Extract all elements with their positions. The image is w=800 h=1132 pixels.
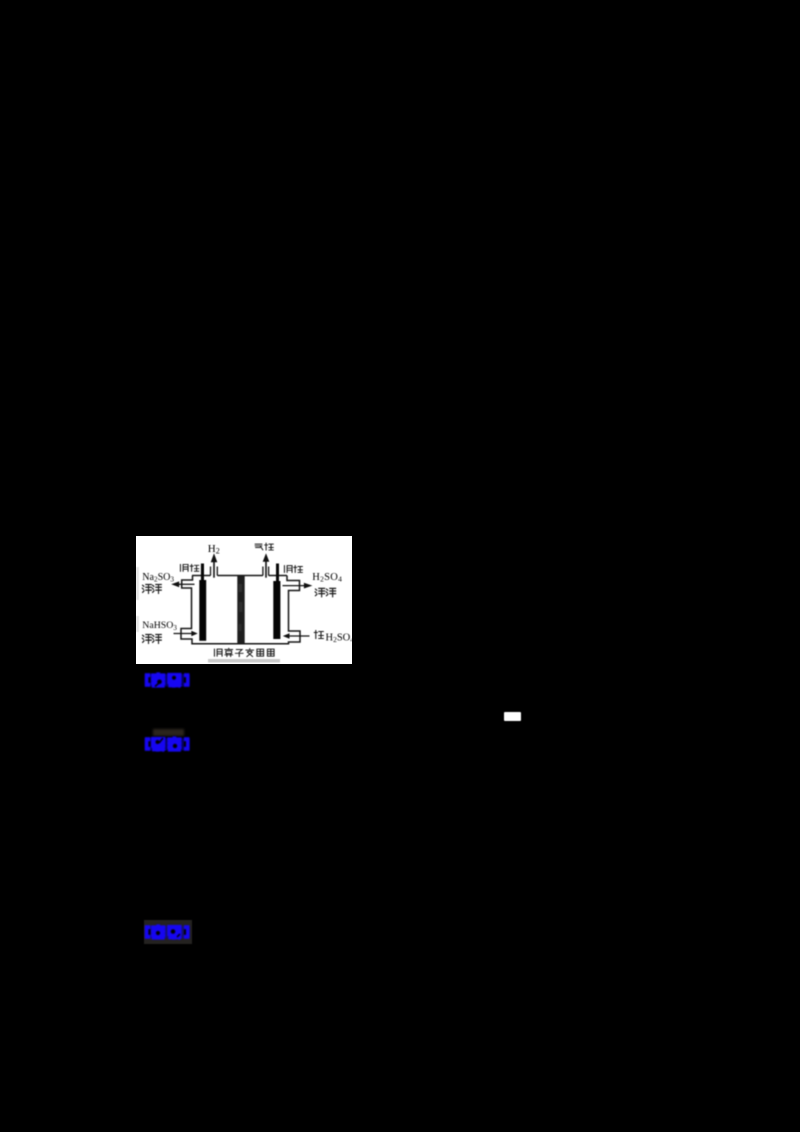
label 阴极 (cathode) [180,564,198,571]
blue label 3: 【解答】 [143,923,193,947]
diagram panel: electrolysis cell figure [136,536,352,664]
label 溶液 (solution) upper-left [142,584,161,593]
label 溶液 lower-left [142,634,161,643]
label 气体 (gas) [255,543,273,550]
grey box behind label 3 [144,920,193,944]
top wall segments [192,575,287,577]
cell outline: walls with inlet/outlet stubs [181,576,300,644]
H2 up arrow [213,562,215,578]
label 溶液 right [315,588,335,596]
white dash (blank marker) [504,712,521,721]
right upper outlet arrow (H2SO4 out) [283,585,305,587]
svg-text:H2SO4: H2SO4 [326,632,353,644]
svg-text:H2SO4: H2SO4 [312,572,342,584]
gas up arrow [265,562,267,578]
left upper outlet arrow (Na2SO3 out) [179,583,195,585]
left lower inlet arrow (NaHSO3 in) [174,633,192,635]
caption 阴离子交换膜 (anion exchange membrane) [214,648,274,656]
svg-text:H2: H2 [208,543,220,556]
svg-text:NaHSO3: NaHSO3 [142,620,177,632]
grey strip under membrane caption [208,659,280,663]
membrane (anion exchange membrane) [237,576,244,644]
blue label 1: 【考点】 [143,671,193,695]
anode electrode (right): rod + plate [276,564,279,582]
label 阳极 (anode) [284,566,302,573]
blue label 2: 【分析】 [143,735,193,759]
grey halo above label 2 [153,729,184,736]
vent ticks [211,567,269,576]
label 稀 H2SO4 (dilute sulfuric acid) [314,631,323,639]
svg-text:Na2SO3: Na2SO3 [142,572,174,584]
cathode electrode (left): rod + plate [201,564,204,581]
right lower inlet arrow (dilute H2SO4 in) [289,635,309,637]
faint scan artifacts on left edge [136,567,139,600]
